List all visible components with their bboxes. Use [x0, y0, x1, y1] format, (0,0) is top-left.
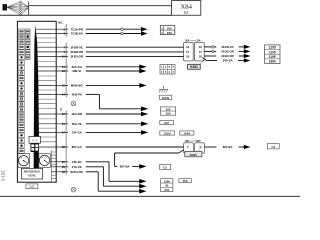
svg-text:73F-GA: 73F-GA: [72, 131, 82, 135]
svg-text:DA: DA: [197, 39, 201, 43]
svg-text:1800: 1800: [269, 60, 276, 64]
svg-text:553: 553: [183, 179, 188, 183]
svg-text:14: 14: [62, 92, 66, 96]
svg-text:247: 247: [29, 185, 35, 189]
svg-text:1195: 1195: [269, 46, 276, 50]
svg-text:MAN: MAN: [162, 96, 169, 100]
svg-text:4EA-OR: 4EA-OR: [71, 112, 82, 116]
svg-text:200: 200: [164, 188, 169, 192]
svg-text:84: 84: [184, 10, 190, 15]
svg-text:232: 232: [167, 26, 172, 30]
svg-text:73E-BJ: 73E-BJ: [72, 160, 82, 164]
svg-text:29: 29: [62, 165, 66, 169]
svg-text:3FDR-VC: 3FDR-VC: [221, 45, 233, 49]
svg-text:3FDB-OR: 3FDB-OR: [70, 50, 83, 54]
svg-text:C5: C5: [163, 166, 167, 170]
svg-text:3FED-OR: 3FED-OR: [221, 54, 233, 58]
svg-text:NO: NO: [196, 139, 200, 143]
svg-text:C2: C2: [271, 145, 275, 149]
svg-text:21: 21: [62, 122, 66, 126]
svg-text:30: 30: [62, 170, 66, 174]
svg-text:15: 15: [62, 83, 66, 87]
svg-text:195: 195: [165, 112, 170, 116]
svg-text:3FCB-OR: 3FCB-OR: [221, 50, 234, 54]
svg-text:119P: 119P: [269, 55, 277, 59]
svg-text:3FED-OR: 3FED-OR: [70, 55, 82, 59]
svg-text:17: 17: [62, 130, 66, 134]
svg-text:13: 13: [62, 69, 66, 73]
svg-text:8CP3-NO: 8CP3-NO: [71, 170, 84, 174]
svg-text:232: 232: [167, 31, 172, 35]
svg-text:27: 27: [62, 112, 66, 116]
svg-text:86T-BA: 86T-BA: [120, 165, 130, 169]
svg-text:3-192: 3-192: [1, 170, 6, 182]
svg-text:10: 10: [62, 55, 66, 59]
svg-text:1593: 1593: [164, 131, 171, 135]
svg-text:3FDR-VE: 3FDR-VE: [71, 45, 83, 49]
svg-text:1195: 1195: [269, 50, 276, 54]
svg-text:1564: 1564: [183, 131, 190, 135]
svg-text:2TA-VE: 2TA-VE: [72, 165, 82, 169]
svg-text:86T-BA: 86T-BA: [223, 145, 233, 149]
svg-text:NO: NO: [185, 139, 189, 143]
svg-text:AZUAC: AZUAC: [28, 174, 36, 177]
svg-text:36A-VE: 36A-VE: [72, 122, 82, 126]
svg-text:F 4: F 4: [33, 139, 38, 143]
svg-text:MAN-NO: MAN-NO: [71, 84, 83, 88]
svg-text:MR ESSUACH: MR ESSUACH: [24, 171, 40, 174]
svg-text:23: 23: [62, 145, 66, 149]
svg-text:32B-VI: 32B-VI: [72, 69, 81, 73]
svg-text:R325: R325: [190, 153, 198, 157]
svg-text:NC.: NC.: [58, 21, 63, 25]
svg-text:K363: K363: [190, 65, 198, 69]
svg-text:BA: BA: [186, 39, 190, 43]
svg-text:34D-SA: 34D-SA: [222, 59, 232, 63]
svg-text:25: 25: [62, 160, 66, 164]
svg-text:207: 207: [164, 121, 169, 125]
svg-text:4EB-PA: 4EB-PA: [72, 93, 82, 97]
svg-text:86T-GA: 86T-GA: [72, 145, 82, 149]
svg-text:7C3B-SA: 7C3B-SA: [71, 32, 83, 36]
